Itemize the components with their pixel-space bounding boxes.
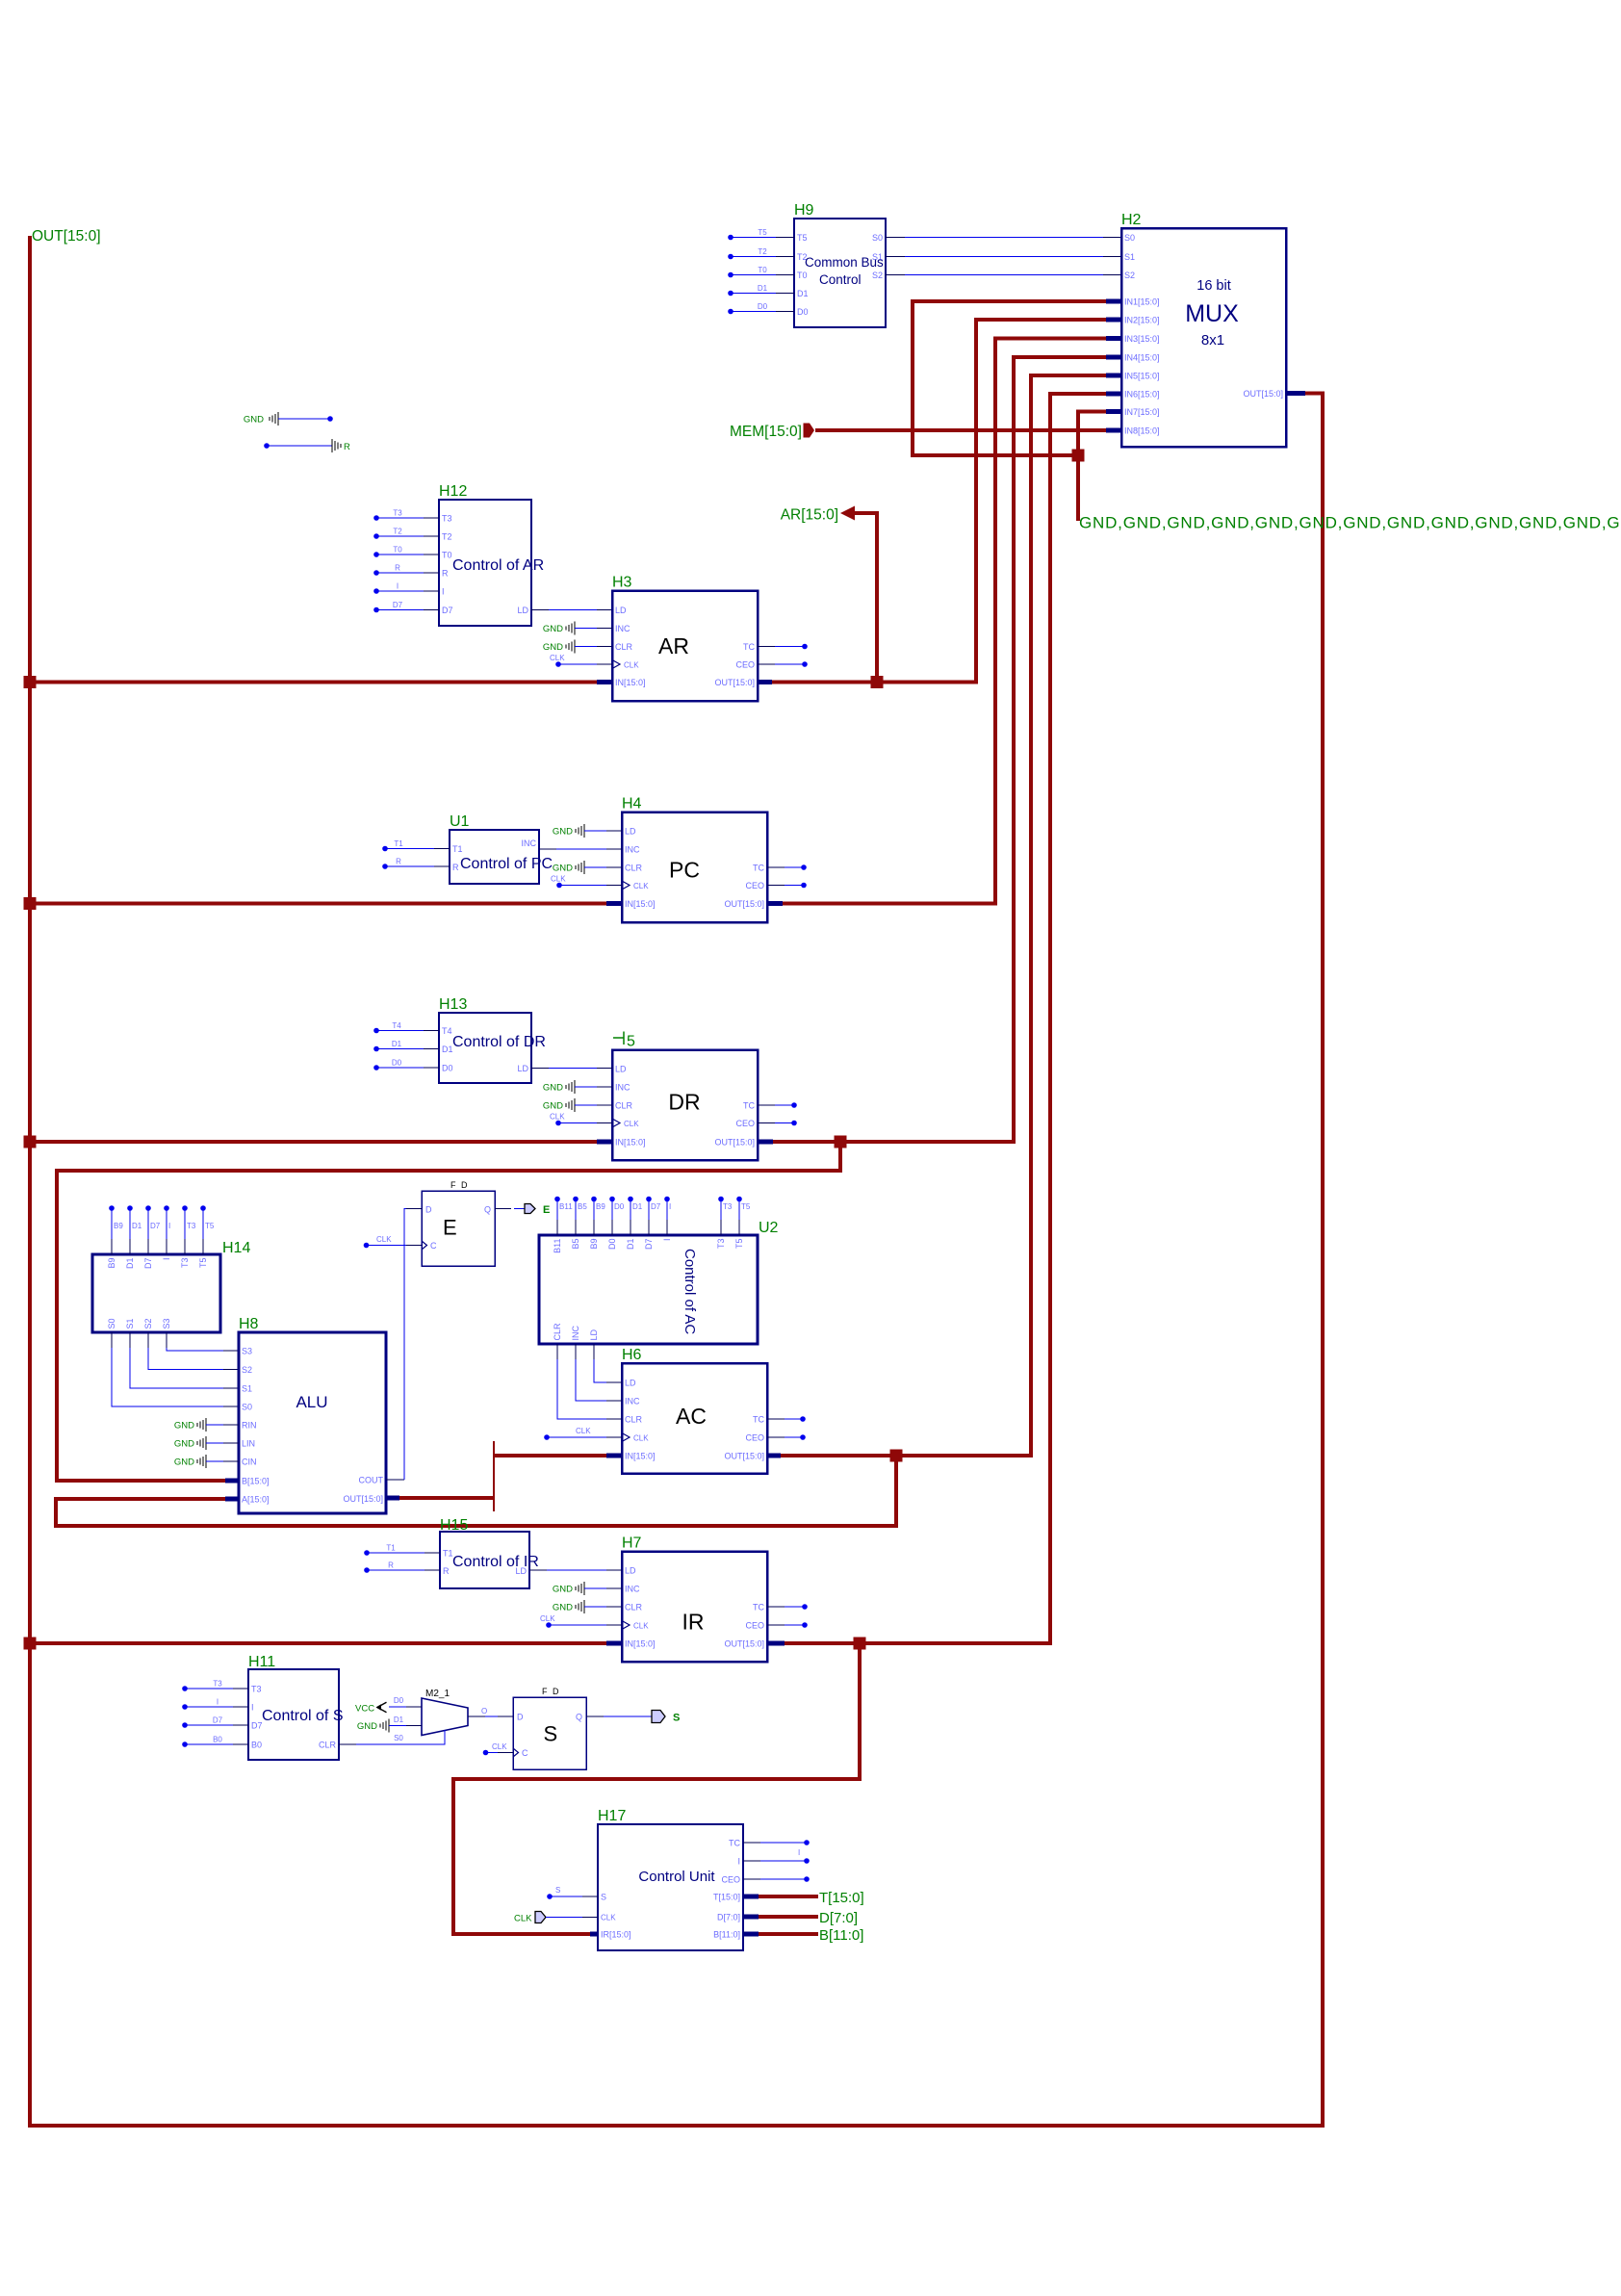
svg-text:T4: T4 <box>442 1026 452 1036</box>
wire H12 input R <box>373 564 439 576</box>
svg-text:T3: T3 <box>251 1685 262 1694</box>
wire E flip-flop Q output to E terminal <box>495 1208 525 1210</box>
wire GND net to MUX IN1 <box>913 301 1106 455</box>
svg-text:R: R <box>396 858 401 866</box>
svg-text:T5: T5 <box>734 1239 744 1250</box>
svg-text:I: I <box>442 587 445 597</box>
svg-text:RIN: RIN <box>242 1421 257 1431</box>
svg-text:S2: S2 <box>143 1318 153 1329</box>
wire H4 CEO output <box>767 883 807 889</box>
ground GND at H3 CLR <box>543 640 612 654</box>
wire H9 input T0 <box>728 266 794 277</box>
net label B[11:0] <box>819 1927 863 1944</box>
svg-text:D7: D7 <box>143 1258 153 1270</box>
svg-text:B9: B9 <box>596 1202 605 1211</box>
wire H3 CLK input <box>550 654 612 667</box>
wire H15 input R <box>364 1561 440 1573</box>
svg-text:IN2[15:0]: IN2[15:0] <box>1124 316 1160 325</box>
ground GND at ALU LIN <box>174 1436 239 1450</box>
junction DR OUT / ALU B branch <box>835 1136 847 1148</box>
junction GND net IN1/IN7 <box>1072 450 1085 462</box>
wire H4 CLK input <box>551 875 622 889</box>
wire U2 top input T5 <box>736 1197 751 1235</box>
svg-text:D7: D7 <box>213 1716 223 1725</box>
svg-text:INC: INC <box>625 845 640 855</box>
svg-text:GND: GND <box>543 642 563 653</box>
pin CU B stub <box>743 1932 759 1937</box>
svg-text:R: R <box>452 863 459 872</box>
svg-text:B[11:0]: B[11:0] <box>713 1930 740 1940</box>
wire H9 input T2 <box>728 247 794 259</box>
svg-text:GND: GND <box>553 1585 573 1595</box>
wire H9 S2 to MUX S2 <box>886 274 1121 276</box>
wire H15 input T1 <box>364 1544 440 1556</box>
svg-text:5: 5 <box>627 1034 635 1050</box>
wire U2 top input D0 <box>609 1197 625 1235</box>
wire H14 S2 to ALU S2 <box>148 1332 239 1370</box>
svg-text:H2: H2 <box>1121 212 1142 228</box>
svg-text:CLK: CLK <box>550 1113 565 1122</box>
svg-text:GND: GND <box>553 827 573 838</box>
wire H12 input T3 <box>373 509 439 521</box>
svg-text:D0: D0 <box>797 307 809 317</box>
svg-text:R: R <box>442 569 449 579</box>
svg-text:B5: B5 <box>571 1239 580 1250</box>
wire H14 top input I <box>164 1205 170 1254</box>
svg-text:D1: D1 <box>125 1258 135 1270</box>
svg-text:LD: LD <box>589 1329 599 1340</box>
pin MUX IN5 stub <box>1106 374 1121 378</box>
svg-text:D0: D0 <box>607 1239 617 1251</box>
svg-text:Control: Control <box>819 272 862 287</box>
wire H14 top input B9 <box>109 1205 123 1254</box>
wire Control Unit CEO output <box>743 1876 810 1882</box>
svg-text:16 bit: 16 bit <box>1196 278 1230 294</box>
svg-text:CLK: CLK <box>492 1742 507 1751</box>
svg-text:TC: TC <box>753 1415 764 1425</box>
wire IR OUT to MUX IN6 <box>785 394 1106 1643</box>
svg-text:GND: GND <box>553 1603 573 1613</box>
svg-text:AR[15:0]: AR[15:0] <box>781 507 838 524</box>
net label D[7:0] <box>819 1910 858 1926</box>
junction AC OUT / ALU A branch <box>890 1450 903 1462</box>
pin MUX IN8 stub <box>1106 428 1121 433</box>
svg-text:LD: LD <box>625 827 636 837</box>
wire H14 top input T3 <box>182 1205 196 1254</box>
svg-text:CEO: CEO <box>735 660 755 670</box>
svg-text:E: E <box>543 1204 550 1216</box>
svg-text:D[7:0]: D[7:0] <box>819 1910 858 1926</box>
svg-text:CEO: CEO <box>745 1621 764 1631</box>
svg-text:I: I <box>217 1698 219 1707</box>
register block -I5 DR <box>612 1032 758 1161</box>
svg-text:E: E <box>443 1216 457 1240</box>
svg-text:D1: D1 <box>797 289 809 298</box>
ground GND at M2_1 D1 <box>357 1719 422 1733</box>
wire H12 input D7 <box>373 601 439 612</box>
svg-text:OUT[15:0]: OUT[15:0] <box>724 1639 764 1649</box>
pin AC OUT stub <box>766 1454 781 1458</box>
ground GND at H7 INC <box>553 1582 622 1595</box>
svg-text:D7: D7 <box>651 1202 661 1211</box>
ground GND at H3 INC <box>543 622 612 635</box>
svg-text:CEO: CEO <box>745 881 764 890</box>
wire U1 INC to PC INC <box>539 848 622 850</box>
svg-text:T1: T1 <box>443 1549 453 1559</box>
svg-text:IR[15:0]: IR[15:0] <box>601 1930 631 1940</box>
svg-text:CLR: CLR <box>553 1323 562 1341</box>
svg-text:T2: T2 <box>442 532 452 542</box>
pin CU T stub <box>743 1895 759 1899</box>
svg-text:TC: TC <box>753 1603 764 1612</box>
svg-text:T4: T4 <box>392 1021 401 1030</box>
wire U2 INC to AC INC <box>576 1344 622 1401</box>
mux M2_1 <box>422 1689 468 1736</box>
wire H14 S1 to ALU S1 <box>130 1332 239 1388</box>
svg-text:H6: H6 <box>622 1347 642 1363</box>
wire H11 CLR to M2_1 S0 <box>339 1730 445 1744</box>
svg-text:CLR: CLR <box>615 642 633 652</box>
output terminal S <box>652 1711 665 1723</box>
svg-text:GND: GND <box>543 1083 563 1094</box>
register block H4 PC <box>622 796 767 923</box>
wire ALU OUT[15:0] to AC IN[15:0] <box>399 1441 606 1511</box>
wire H9 S0 to MUX S0 <box>886 237 1121 239</box>
svg-text:Q: Q <box>484 1205 491 1215</box>
wire H14 top input T5 <box>200 1205 215 1254</box>
svg-text:OUT[15:0]: OUT[15:0] <box>724 1452 764 1461</box>
junction OUT bus / AR IN tap <box>24 676 37 688</box>
block H2 16-bit MUX 8x1 <box>1121 212 1286 447</box>
svg-text:OUT[15:0]: OUT[15:0] <box>1243 389 1283 399</box>
svg-text:IN[15:0]: IN[15:0] <box>625 1452 656 1461</box>
wire U1 input T1 <box>382 839 450 851</box>
svg-text:B11: B11 <box>559 1202 573 1211</box>
svg-text:F D: F D <box>450 1180 469 1190</box>
svg-text:IR: IR <box>682 1610 705 1635</box>
svg-text:H12: H12 <box>439 483 467 500</box>
svg-text:IN[15:0]: IN[15:0] <box>615 1138 646 1148</box>
ground GND standalone net top left <box>244 412 333 426</box>
svg-text:LD: LD <box>615 606 627 615</box>
block H11 Control of S <box>248 1654 343 1760</box>
svg-text:INC: INC <box>615 1083 630 1093</box>
svg-text:OUT[15:0]: OUT[15:0] <box>343 1494 383 1504</box>
ground GND at H4 CLR <box>553 861 622 874</box>
svg-text:R: R <box>388 1561 394 1570</box>
block H9 Common Bus Control <box>794 202 886 327</box>
svg-text:B[15:0]: B[15:0] <box>242 1477 270 1486</box>
svg-text:H8: H8 <box>239 1316 259 1332</box>
wire H13 input D1 <box>373 1040 439 1051</box>
svg-text:B5: B5 <box>578 1202 587 1211</box>
svg-text:GND: GND <box>553 864 573 874</box>
svg-text:A[15:0]: A[15:0] <box>242 1495 270 1505</box>
wire OUT bus tap to DR IN[15:0] <box>30 1140 597 1144</box>
svg-text:OUT[15:0]: OUT[15:0] <box>714 1138 755 1148</box>
pin AR IN stub <box>597 680 612 684</box>
svg-text:S0: S0 <box>1124 233 1135 243</box>
wire H7 TC output <box>767 1604 808 1610</box>
svg-text:U1: U1 <box>450 813 470 830</box>
svg-text:CLK: CLK <box>550 654 565 662</box>
svg-text:CLK: CLK <box>624 1120 639 1128</box>
svg-text:M2_1: M2_1 <box>425 1689 450 1699</box>
wire OUT bus tap to IR IN[15:0] <box>30 1641 606 1645</box>
svg-text:C: C <box>430 1241 437 1251</box>
wire Control Unit TC output <box>743 1840 810 1845</box>
svg-text:R: R <box>344 442 350 452</box>
svg-text:CLK: CLK <box>551 875 566 884</box>
svg-text:ALU: ALU <box>296 1393 327 1411</box>
pin MUX IN1 stub <box>1106 299 1121 304</box>
svg-text:LD: LD <box>625 1566 636 1576</box>
wire OUT[15:0] common bus main loop (left vertical, bottom, right vertical) <box>30 236 1323 2126</box>
svg-text:GND: GND <box>543 1101 563 1112</box>
svg-text:B9: B9 <box>114 1222 123 1230</box>
svg-text:S: S <box>555 1886 560 1895</box>
net label S <box>673 1713 680 1724</box>
wire AR[15:0] branch up to AR[15:0] label arrow <box>855 513 877 683</box>
svg-text:COUT: COUT <box>359 1476 384 1485</box>
svg-text:T3: T3 <box>716 1239 726 1250</box>
svg-text:H4: H4 <box>622 796 642 813</box>
svg-text:S0: S0 <box>107 1318 116 1329</box>
wire H14 S0 to ALU S0 <box>112 1332 239 1406</box>
svg-text:S1: S1 <box>242 1384 252 1394</box>
svg-text:D0: D0 <box>614 1202 625 1211</box>
svg-text:S2: S2 <box>872 271 883 280</box>
block H13 Control of DR <box>439 996 546 1083</box>
svg-text:S: S <box>544 1722 558 1746</box>
svg-text:D: D <box>517 1713 524 1722</box>
wire Control Unit I output <box>743 1848 810 1864</box>
svg-text:I: I <box>168 1222 170 1230</box>
wire H9 S1 to MUX S1 <box>886 256 1121 258</box>
svg-text:D1: D1 <box>392 1040 402 1048</box>
svg-text:CLK: CLK <box>633 1434 649 1443</box>
svg-text:OUT[15:0]: OUT[15:0] <box>724 899 764 909</box>
svg-text:T[15:0]: T[15:0] <box>713 1893 740 1902</box>
svg-text:CLR: CLR <box>319 1741 337 1750</box>
svg-text:Control of PC: Control of PC <box>460 856 553 872</box>
pin DR IN stub <box>597 1140 612 1145</box>
svg-text:IN6[15:0]: IN6[15:0] <box>1124 390 1160 400</box>
block U2 Control of AC <box>539 1220 779 1344</box>
svg-text:INC: INC <box>625 1397 640 1406</box>
svg-text:T3: T3 <box>723 1202 733 1211</box>
wire H12 input I <box>373 582 439 594</box>
net label E <box>543 1204 550 1216</box>
svg-text:IN[15:0]: IN[15:0] <box>625 1639 656 1649</box>
svg-text:Control of AC: Control of AC <box>682 1249 698 1334</box>
wire H9 input T5 <box>728 228 794 240</box>
ground GND at -I5 CLR <box>543 1098 612 1112</box>
svg-text:CLK: CLK <box>514 1914 532 1924</box>
block U1 Control of PC <box>450 813 553 884</box>
wire H7 CEO output <box>767 1622 808 1628</box>
svg-text:D7: D7 <box>442 606 453 615</box>
wire Control Unit T[15:0] output stub <box>759 1895 818 1898</box>
pin PC IN stub <box>606 901 622 906</box>
svg-text:B11: B11 <box>553 1239 562 1253</box>
svg-text:T3: T3 <box>442 514 452 524</box>
svg-text:T5: T5 <box>198 1258 208 1269</box>
svg-text:CLK: CLK <box>601 1914 616 1922</box>
svg-text:AR: AR <box>658 633 689 658</box>
svg-text:CEO: CEO <box>745 1433 764 1443</box>
wire IR OUT branch to Control Unit IR[15:0] <box>453 1643 860 1934</box>
svg-text:B0: B0 <box>251 1741 262 1750</box>
wire H7 CLK input <box>540 1614 622 1628</box>
svg-text:T2: T2 <box>393 528 402 536</box>
wire PC OUT to MUX IN3 <box>783 339 1106 904</box>
svg-text:S1: S1 <box>1124 252 1135 262</box>
svg-text:CLK: CLK <box>633 1622 649 1631</box>
svg-text:H17: H17 <box>598 1808 626 1824</box>
wire Control Unit D[7:0] output stub <box>759 1915 818 1919</box>
wire H4 TC output <box>767 864 807 870</box>
wire -I5 CLK input <box>550 1113 612 1126</box>
flip-flop FD S <box>513 1687 586 1769</box>
wire H14 top input D7 <box>145 1205 161 1254</box>
svg-text:CLR: CLR <box>625 1603 643 1612</box>
svg-text:IN5[15:0]: IN5[15:0] <box>1124 372 1160 381</box>
wire U2 top input D1 <box>628 1197 643 1235</box>
svg-text:O: O <box>481 1707 487 1716</box>
svg-text:GND: GND <box>174 1421 194 1432</box>
wire U2 top input I <box>664 1197 671 1235</box>
svg-text:GND: GND <box>543 624 563 634</box>
wire H14 top input D1 <box>127 1205 142 1254</box>
block H8 ALU <box>239 1316 386 1513</box>
svg-text:LD: LD <box>517 1064 528 1073</box>
net label arrow AR[15:0] <box>781 506 855 524</box>
svg-text:B9: B9 <box>589 1239 599 1250</box>
svg-text:D1: D1 <box>132 1222 142 1230</box>
svg-text:CLK: CLK <box>576 1427 591 1435</box>
block H12 Control of AR <box>439 483 544 626</box>
wire AR[15:0] net: AR OUT to MUX IN2 <box>772 320 1106 683</box>
svg-text:CLK: CLK <box>633 882 649 890</box>
svg-text:IN[15:0]: IN[15:0] <box>615 678 646 687</box>
register block H3 AR <box>612 575 758 702</box>
wire H11 input T3 <box>182 1680 248 1691</box>
wire AC OUT branch to ALU A[15:0] <box>56 1456 896 1526</box>
svg-text:PC: PC <box>669 858 700 883</box>
pin MUX IN3 stub <box>1106 336 1121 341</box>
svg-text:IN3[15:0]: IN3[15:0] <box>1124 334 1160 344</box>
svg-text:D0: D0 <box>442 1064 453 1073</box>
wire H13 input D0 <box>373 1059 439 1071</box>
wire S flip-flop CLK input <box>483 1742 513 1755</box>
svg-text:CLR: CLR <box>625 1415 643 1425</box>
svg-text:D1: D1 <box>758 284 768 293</box>
svg-text:I: I <box>162 1258 171 1261</box>
wire H11 input D7 <box>182 1716 248 1728</box>
svg-text:T0: T0 <box>442 551 452 560</box>
svg-text:OUT[15:0]: OUT[15:0] <box>32 228 101 245</box>
svg-text:T[15:0]: T[15:0] <box>819 1890 864 1906</box>
svg-text:Control of AR: Control of AR <box>452 557 544 574</box>
pin IR OUT stub <box>767 1641 785 1646</box>
svg-text:S3: S3 <box>242 1347 252 1356</box>
svg-text:T5: T5 <box>205 1222 215 1230</box>
svg-text:D7: D7 <box>150 1222 161 1230</box>
wire H11 input B0 <box>182 1736 248 1747</box>
wire Control Unit B[11:0] output stub <box>759 1932 818 1936</box>
svg-text:D0: D0 <box>758 302 768 311</box>
svg-text:H13: H13 <box>439 996 467 1013</box>
ground GND at H7 CLR <box>553 1600 622 1613</box>
svg-text:OUT[15:0]: OUT[15:0] <box>714 678 755 687</box>
svg-text:T3: T3 <box>213 1680 222 1689</box>
svg-text:TC: TC <box>743 1101 755 1111</box>
svg-text:TC: TC <box>743 642 755 652</box>
svg-text:S: S <box>601 1893 606 1902</box>
svg-text:C: C <box>522 1748 528 1758</box>
pin MUX IN4 stub <box>1106 355 1121 360</box>
svg-text:LIN: LIN <box>242 1439 255 1449</box>
junction AR OUT / AR[15:0] label branch <box>871 676 884 688</box>
svg-text:T1: T1 <box>386 1544 396 1553</box>
block H14 ALU select encoder <box>92 1240 250 1332</box>
svg-text:F D: F D <box>542 1687 560 1696</box>
block H15 Control of IR <box>440 1517 539 1588</box>
svg-text:Control of DR: Control of DR <box>452 1034 546 1050</box>
pin CU IR stub <box>590 1932 598 1937</box>
ground GND at H4 LD <box>553 824 622 838</box>
svg-text:CEO: CEO <box>735 1119 755 1128</box>
svg-text:INC: INC <box>571 1326 580 1341</box>
svg-text:TC: TC <box>753 864 764 873</box>
svg-text:S1: S1 <box>125 1318 135 1329</box>
svg-text:CLR: CLR <box>625 864 643 873</box>
power VCC at M2_1 D0 <box>355 1696 422 1715</box>
svg-text:CLK: CLK <box>376 1235 392 1244</box>
output terminal E <box>525 1204 535 1214</box>
wire U2 top input D7 <box>646 1197 661 1235</box>
svg-text:IN4[15:0]: IN4[15:0] <box>1124 353 1160 363</box>
svg-text:D0: D0 <box>394 1696 404 1705</box>
junction IR OUT / Control Unit branch <box>854 1638 866 1650</box>
svg-text:IN7[15:0]: IN7[15:0] <box>1124 407 1160 417</box>
wire OUT bus tap to AR IN[15:0] <box>30 681 597 684</box>
wire H13 LD to DR LD <box>531 1068 612 1070</box>
wire ALU COUT to E flip-flop D input <box>386 1209 422 1481</box>
wire U2 top input B5 <box>573 1197 587 1235</box>
svg-text:D7: D7 <box>251 1721 263 1731</box>
svg-text:R: R <box>443 1566 450 1576</box>
pin ALU B stub <box>225 1479 239 1483</box>
pin PC OUT stub <box>767 901 783 906</box>
svg-text:D[7:0]: D[7:0] <box>717 1913 740 1922</box>
svg-text:8x1: 8x1 <box>1201 332 1224 348</box>
svg-text:IN[15:0]: IN[15:0] <box>625 899 656 909</box>
svg-text:T0: T0 <box>758 266 767 274</box>
svg-text:CLR: CLR <box>615 1101 633 1111</box>
ground GND at ALU CIN <box>174 1455 239 1468</box>
svg-text:LD: LD <box>625 1379 636 1388</box>
wire U2 top input T3 <box>718 1197 733 1235</box>
svg-text:CLK: CLK <box>540 1614 555 1623</box>
svg-text:D1: D1 <box>394 1716 404 1724</box>
svg-text:H3: H3 <box>612 575 632 591</box>
svg-text:T5: T5 <box>797 233 808 243</box>
wire U2 top input B11 <box>554 1197 573 1235</box>
wire H6 CLK input <box>544 1427 622 1440</box>
svg-text:MEM[15:0]: MEM[15:0] <box>730 424 802 440</box>
